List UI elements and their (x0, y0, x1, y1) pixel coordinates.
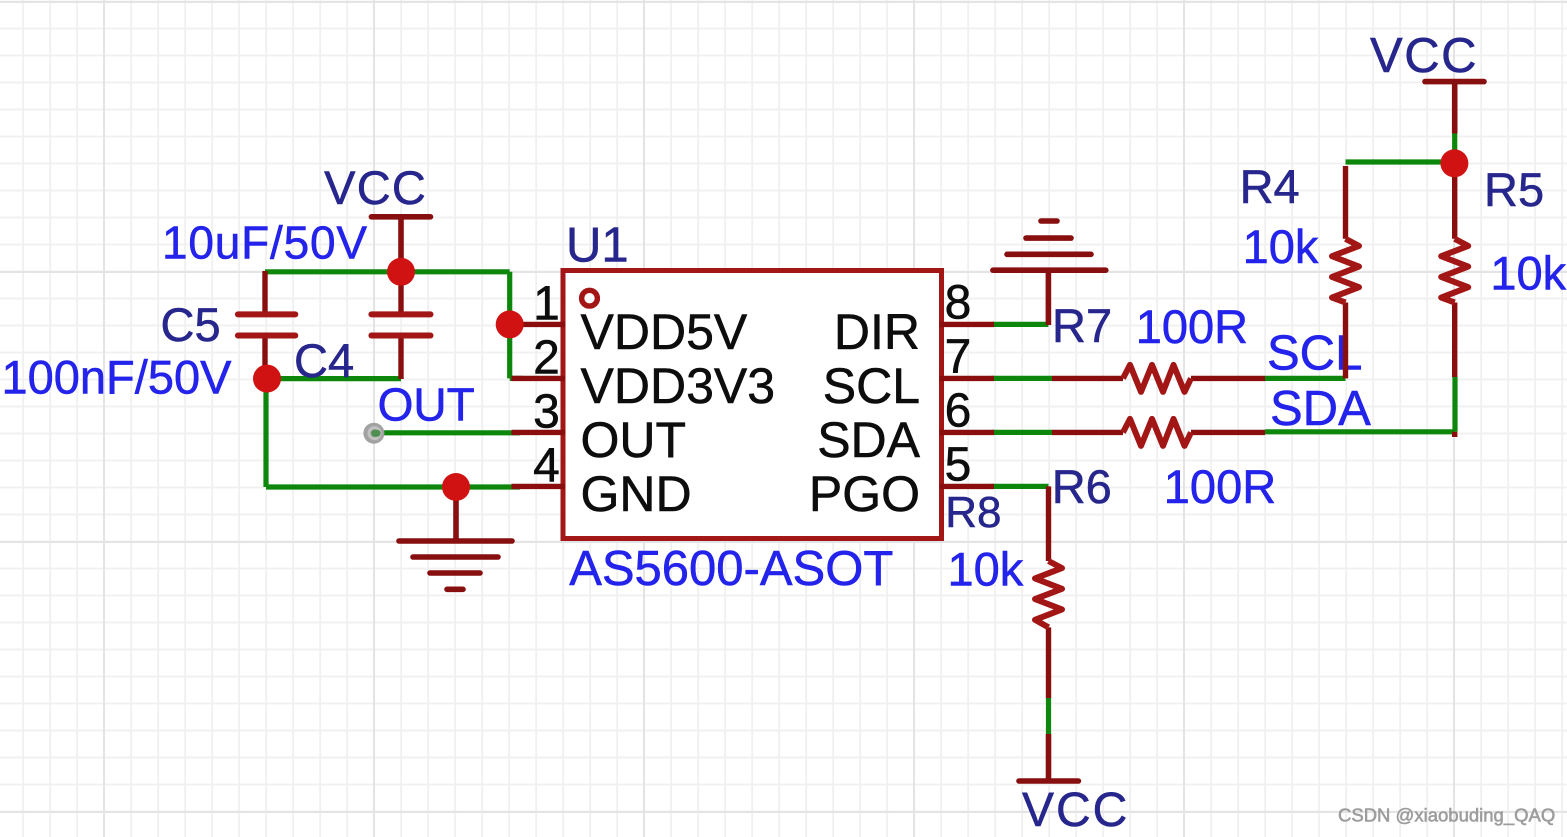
svg-text:8: 8 (945, 277, 972, 330)
wire C5 bottom to C4 bottom (267, 376, 401, 381)
ground symbol bottom (GND pin 4) (399, 487, 512, 589)
junction VCC right (1440, 149, 1468, 177)
resistor R4 (10k pull-up on SCL) (1332, 166, 1359, 378)
svg-text:10k: 10k (1243, 220, 1319, 273)
pin 6 SDA (817, 385, 994, 468)
svg-text:R6: R6 (1052, 460, 1112, 513)
wire SDA (R6 to R5) (1265, 377, 1455, 432)
svg-text:C4: C4 (294, 334, 354, 387)
svg-text:100R: 100R (1164, 460, 1276, 513)
svg-text:DIR: DIR (834, 304, 920, 360)
pin 5 PGO (809, 439, 994, 522)
svg-text:2: 2 (533, 332, 560, 385)
svg-text:5: 5 (945, 439, 972, 492)
svg-text:VCC: VCC (1022, 784, 1129, 837)
resistor R8 (10k on PGO to VCC) (1035, 486, 1062, 698)
svg-text:SDA: SDA (817, 412, 920, 468)
svg-text:VCC: VCC (324, 161, 427, 214)
resistor R7 (100R on SCL) (1052, 365, 1265, 392)
svg-text:10k: 10k (948, 543, 1024, 596)
power port VCC top right (1370, 29, 1484, 134)
svg-text:4: 4 (533, 440, 560, 493)
pin 8 DIR (834, 277, 994, 360)
pin 2 VDD3V3 (512, 332, 776, 414)
svg-text:SCL: SCL (823, 358, 920, 414)
wire pin 7 to R7 (992, 376, 1053, 381)
svg-text:6: 6 (945, 385, 972, 438)
junction VCC / C4 (387, 258, 415, 286)
svg-text:R7: R7 (1052, 299, 1112, 352)
wire C5 bottom down and right to pin 4 GND (266, 379, 520, 487)
svg-text:100nF/50V: 100nF/50V (2, 351, 233, 404)
svg-text:OUT: OUT (581, 412, 687, 468)
svg-text:GND: GND (581, 466, 692, 522)
junction GND wire (442, 473, 470, 501)
wire OUT (pin 3) (374, 430, 520, 435)
pin 3 OUT (512, 386, 687, 468)
junction C5 bottom (253, 365, 281, 393)
wire SCL (R7 to R4) (1265, 376, 1346, 381)
svg-text:U1: U1 (566, 219, 629, 273)
svg-text:R4: R4 (1240, 160, 1300, 213)
svg-text:10k: 10k (1490, 247, 1566, 300)
svg-text:OUT: OUT (378, 379, 475, 431)
svg-text:1: 1 (533, 278, 560, 331)
wire R4 top to VCC junction (1346, 159, 1455, 164)
svg-text:PGO: PGO (809, 466, 920, 522)
svg-text:3: 3 (533, 386, 560, 439)
wire VCC top right to junction (1452, 133, 1457, 163)
svg-text:AS5600-ASOT: AS5600-ASOT (569, 542, 893, 596)
svg-text:VCC: VCC (1370, 29, 1478, 83)
pin 7 SCL (823, 331, 994, 414)
svg-text:C5: C5 (161, 298, 221, 351)
svg-text:VDD5V: VDD5V (581, 304, 748, 360)
no-connect gray dot on OUT (363, 423, 384, 444)
svg-text:CSDN @xiaobuding_QAQ: CSDN @xiaobuding_QAQ (1338, 805, 1555, 827)
capacitor C5 (238, 271, 295, 379)
ground symbol top (DIR pin 8) (993, 221, 1106, 325)
junction pin 1 (496, 310, 524, 338)
wire VCC rail vertical down to pins 1-2 (510, 272, 523, 379)
resistor R6 (100R on SDA) (1052, 419, 1265, 446)
svg-text:VDD3V3: VDD3V3 (581, 358, 776, 414)
wire pin 8 to ground (992, 322, 1049, 327)
capacitor C4 (371, 272, 430, 379)
pin 4 GND (512, 440, 692, 522)
svg-text:R8: R8 (945, 488, 1001, 537)
wire VCC rail horizontal (C5 to pin1 corner) (265, 269, 510, 274)
power port VCC bottom (1019, 734, 1129, 837)
svg-text:7: 7 (945, 331, 972, 384)
svg-text:R5: R5 (1484, 163, 1544, 216)
svg-text:100R: 100R (1136, 300, 1248, 353)
svg-text:SDA: SDA (1270, 382, 1371, 436)
power port VCC top left (324, 161, 430, 272)
wire pin 6 to R6 (992, 430, 1053, 435)
pin 1 indicator circle (582, 290, 598, 306)
svg-text:10uF/50V: 10uF/50V (162, 217, 368, 269)
pin 1 VDD5V (512, 278, 748, 360)
wire R8 bottom to VCC (1046, 698, 1051, 734)
IC U1 AS5600-ASOT body (563, 271, 942, 539)
resistor R5 (10k pull-up on SDA) (1441, 162, 1468, 437)
wire pin 5 to R8 (992, 484, 1049, 489)
